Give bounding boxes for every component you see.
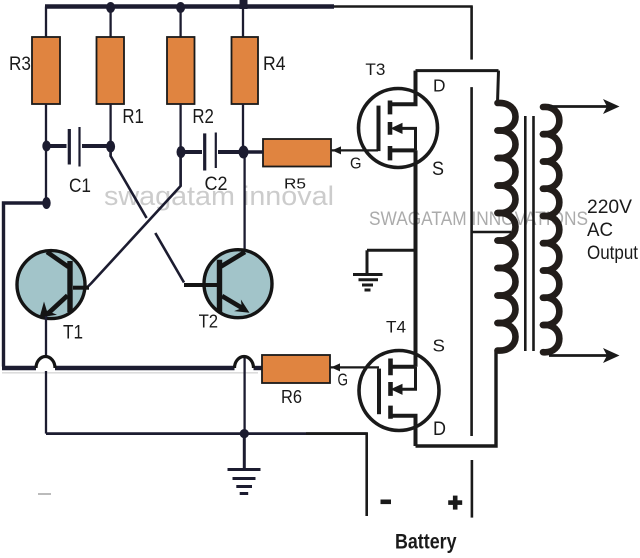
wire left feedback [4,203,47,367]
wire R2 top [179,7,181,38]
svg-text:R2: R2 [192,106,214,128]
resistor R5 [263,139,331,167]
svg-text:R3: R3 [9,54,31,75]
svg-text:R4: R4 [263,54,286,75]
svg-text:D: D [433,418,446,440]
svg-text:S: S [432,159,444,180]
wire secondary bottom lead [549,354,612,357]
resistor R3 [32,37,60,104]
node dot above R2 [176,2,185,13]
svg-text:Output: Output [587,242,638,264]
battery plus sign [448,500,462,505]
wire center rail down [470,7,473,60]
mosfet T3 [359,60,446,180]
ground (mosfet sources) [353,250,416,290]
transformer core [525,116,533,351]
top rail [45,4,334,9]
capacitor C2 [177,133,249,196]
wire rect right down to coil [498,71,499,103]
wire R5 to T3 gate [331,149,378,151]
node dot above R1 [106,2,115,13]
wire secondary top lead [549,105,612,108]
svg-text:D: D [433,76,446,96]
resistor R1 [97,37,125,104]
wire center tap [472,231,511,234]
wire T3 source to T4 source [414,150,418,366]
svg-text:220V: 220V [587,196,632,218]
transistor T1 [17,251,89,344]
svg-text:G: G [338,370,349,390]
svg-text:Battery: Battery [395,531,457,554]
resistor R6 [262,355,330,383]
wire cross A (C1/R1 to T2 base) [111,150,184,283]
transformer secondary winding [543,107,559,352]
resistor R2 [167,37,195,104]
mosfet T4 [359,318,446,446]
svg-text:T2: T2 [199,312,219,332]
noise band under gate bus [2,372,258,374]
wire T2 emitter down [243,357,245,434]
wire R3 bottom to C1 [45,104,47,203]
capacitor C1 [42,127,115,197]
svg-text:R1: R1 [122,106,143,128]
svg-text:G: G [350,156,362,173]
resistor R4 [232,37,259,104]
svg-text:C1: C1 [69,175,91,197]
ground (bottom) [228,434,261,494]
svg-text:R6: R6 [281,386,302,407]
svg-text:T3: T3 [365,60,385,79]
wire R2 bottom [179,104,181,186]
wire cross B (C2/R2 to T1 base) [74,152,181,287]
wire hop over T1 emitter [36,357,55,368]
wire emitter bus bottom [46,432,367,435]
wire R1 bottom [109,104,111,157]
stray dash artifact [38,493,51,495]
node dot R3/C1/T1 [42,197,50,209]
wire D-D bottom side [416,351,497,446]
wire hop over T2 emitter [235,357,254,369]
battery minus sign [381,500,392,505]
svg-text:T4: T4 [386,318,406,337]
wire R3 top [45,7,47,38]
wire gate bus (thick) [2,366,36,370]
svg-text:R5: R5 [284,176,306,193]
svg-text:S: S [433,336,446,356]
wire R6 to T4 gate [330,366,379,368]
wire R4 top [242,7,244,38]
battery minus lead [306,434,367,516]
node square above R4 [240,0,248,9]
wire C2 junction to R5 [243,150,263,153]
wire R4 bottom to T2 [243,104,245,315]
wire T1 emitter down [45,316,47,357]
transformer primary winding [498,103,516,351]
svg-text:T1: T1 [63,323,83,344]
svg-text:C2: C2 [205,173,228,195]
svg-text:AC: AC [587,219,613,241]
node dot emitter/ground [240,429,249,438]
wire rect top side [416,69,499,72]
battery plus lead [471,460,474,518]
wire R1 top [109,7,111,38]
transistor T2 [184,250,272,332]
